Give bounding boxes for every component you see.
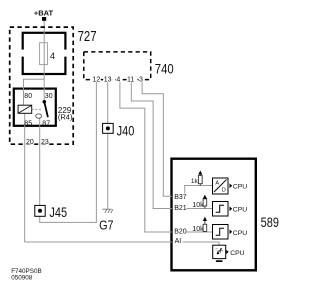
svg-text:J45: J45 (49, 205, 67, 220)
svg-text:B21: B21 (174, 205, 187, 212)
svg-text:30: 30 (45, 93, 53, 100)
svg-text:4: 4 (116, 77, 120, 84)
svg-text:10k: 10k (192, 226, 204, 233)
svg-text:80: 80 (24, 93, 32, 100)
svg-text:CPU: CPU (230, 250, 244, 257)
svg-text:11: 11 (127, 77, 134, 84)
svg-text:050908: 050908 (11, 274, 33, 281)
svg-text:4: 4 (50, 51, 55, 61)
svg-text:727: 727 (78, 28, 97, 45)
svg-text:G7: G7 (99, 219, 113, 233)
svg-text:85: 85 (24, 121, 32, 128)
svg-text:B20: B20 (174, 229, 187, 236)
svg-text:20: 20 (26, 139, 34, 146)
svg-text:13: 13 (104, 77, 112, 84)
svg-text:(R4): (R4) (58, 113, 73, 122)
svg-text:12: 12 (93, 77, 101, 84)
svg-text:+BAT: +BAT (34, 8, 54, 17)
svg-text:10k: 10k (192, 202, 204, 209)
svg-text:740: 740 (155, 60, 174, 77)
svg-text:CPU: CPU (233, 184, 247, 191)
svg-text:1k: 1k (191, 178, 199, 185)
svg-text:A: A (215, 180, 219, 186)
svg-text:J40: J40 (117, 123, 135, 138)
svg-text:87: 87 (42, 121, 50, 128)
svg-text:D: D (222, 188, 226, 194)
svg-text:23: 23 (41, 139, 49, 146)
svg-text:3: 3 (139, 77, 143, 84)
svg-text:CPU: CPU (233, 230, 247, 237)
svg-text:B37: B37 (174, 194, 187, 201)
svg-text:CPU: CPU (233, 207, 247, 214)
svg-text:AI: AI (175, 238, 182, 245)
svg-text:589: 589 (261, 215, 279, 230)
